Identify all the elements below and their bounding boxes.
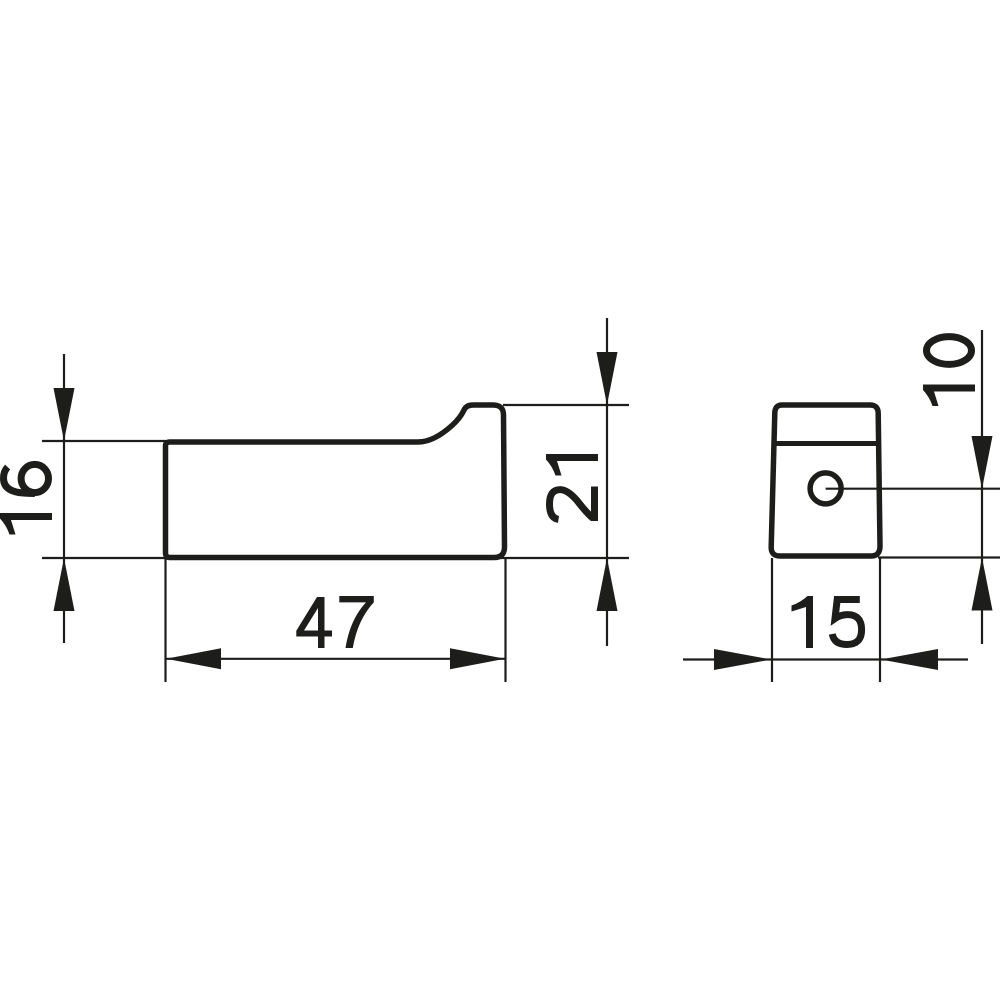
arrow 16 bottom (up) [54, 558, 75, 611]
extension line bottom right (10) [878, 556, 1000, 558]
extension line left of 15 [771, 558, 773, 682]
extension line left of 47 [164, 558, 166, 682]
dimension text 47 [296, 596, 374, 648]
arrow 21 bottom (up) [597, 558, 618, 611]
arrow 47 left (points left) [166, 648, 221, 669]
dimension line 47 [166, 658, 505, 660]
arrow 10 bottom (up, tip at bottom line) [972, 558, 993, 611]
extension line top of 21 (lip level) [503, 404, 629, 406]
extension line from hole center (10) [826, 488, 1000, 490]
arrow 10 top (down, tip at centerline) [972, 436, 993, 489]
extension line right of 15 [879, 558, 881, 682]
front view top face edge line [774, 441, 879, 446]
arrow 15 left (points right, outside) [714, 649, 772, 670]
hook front view outline [771, 405, 880, 556]
extension line right of 47 [504, 558, 506, 682]
dimension text 21 [546, 454, 598, 521]
extension line bottom shared 16/21 [42, 557, 629, 559]
arrow 15 right (points left, outside) [881, 649, 939, 670]
dimension line 10 [981, 330, 983, 644]
dimension text 16 [0, 464, 52, 534]
dimension line 15 [683, 658, 968, 660]
arrow 21 top (down) [597, 352, 618, 405]
arrow 47 right (points right) [450, 648, 505, 669]
dimension line 16 [63, 354, 65, 643]
hook side view outline [166, 405, 505, 558]
dimension text 10 [923, 337, 975, 406]
dimension text 15 [792, 596, 862, 648]
arrow 16 top (down) [54, 388, 75, 441]
mounting hole circle [810, 473, 841, 504]
extension line top of 16 (left) [42, 440, 166, 442]
dimension line 21 [606, 318, 608, 646]
